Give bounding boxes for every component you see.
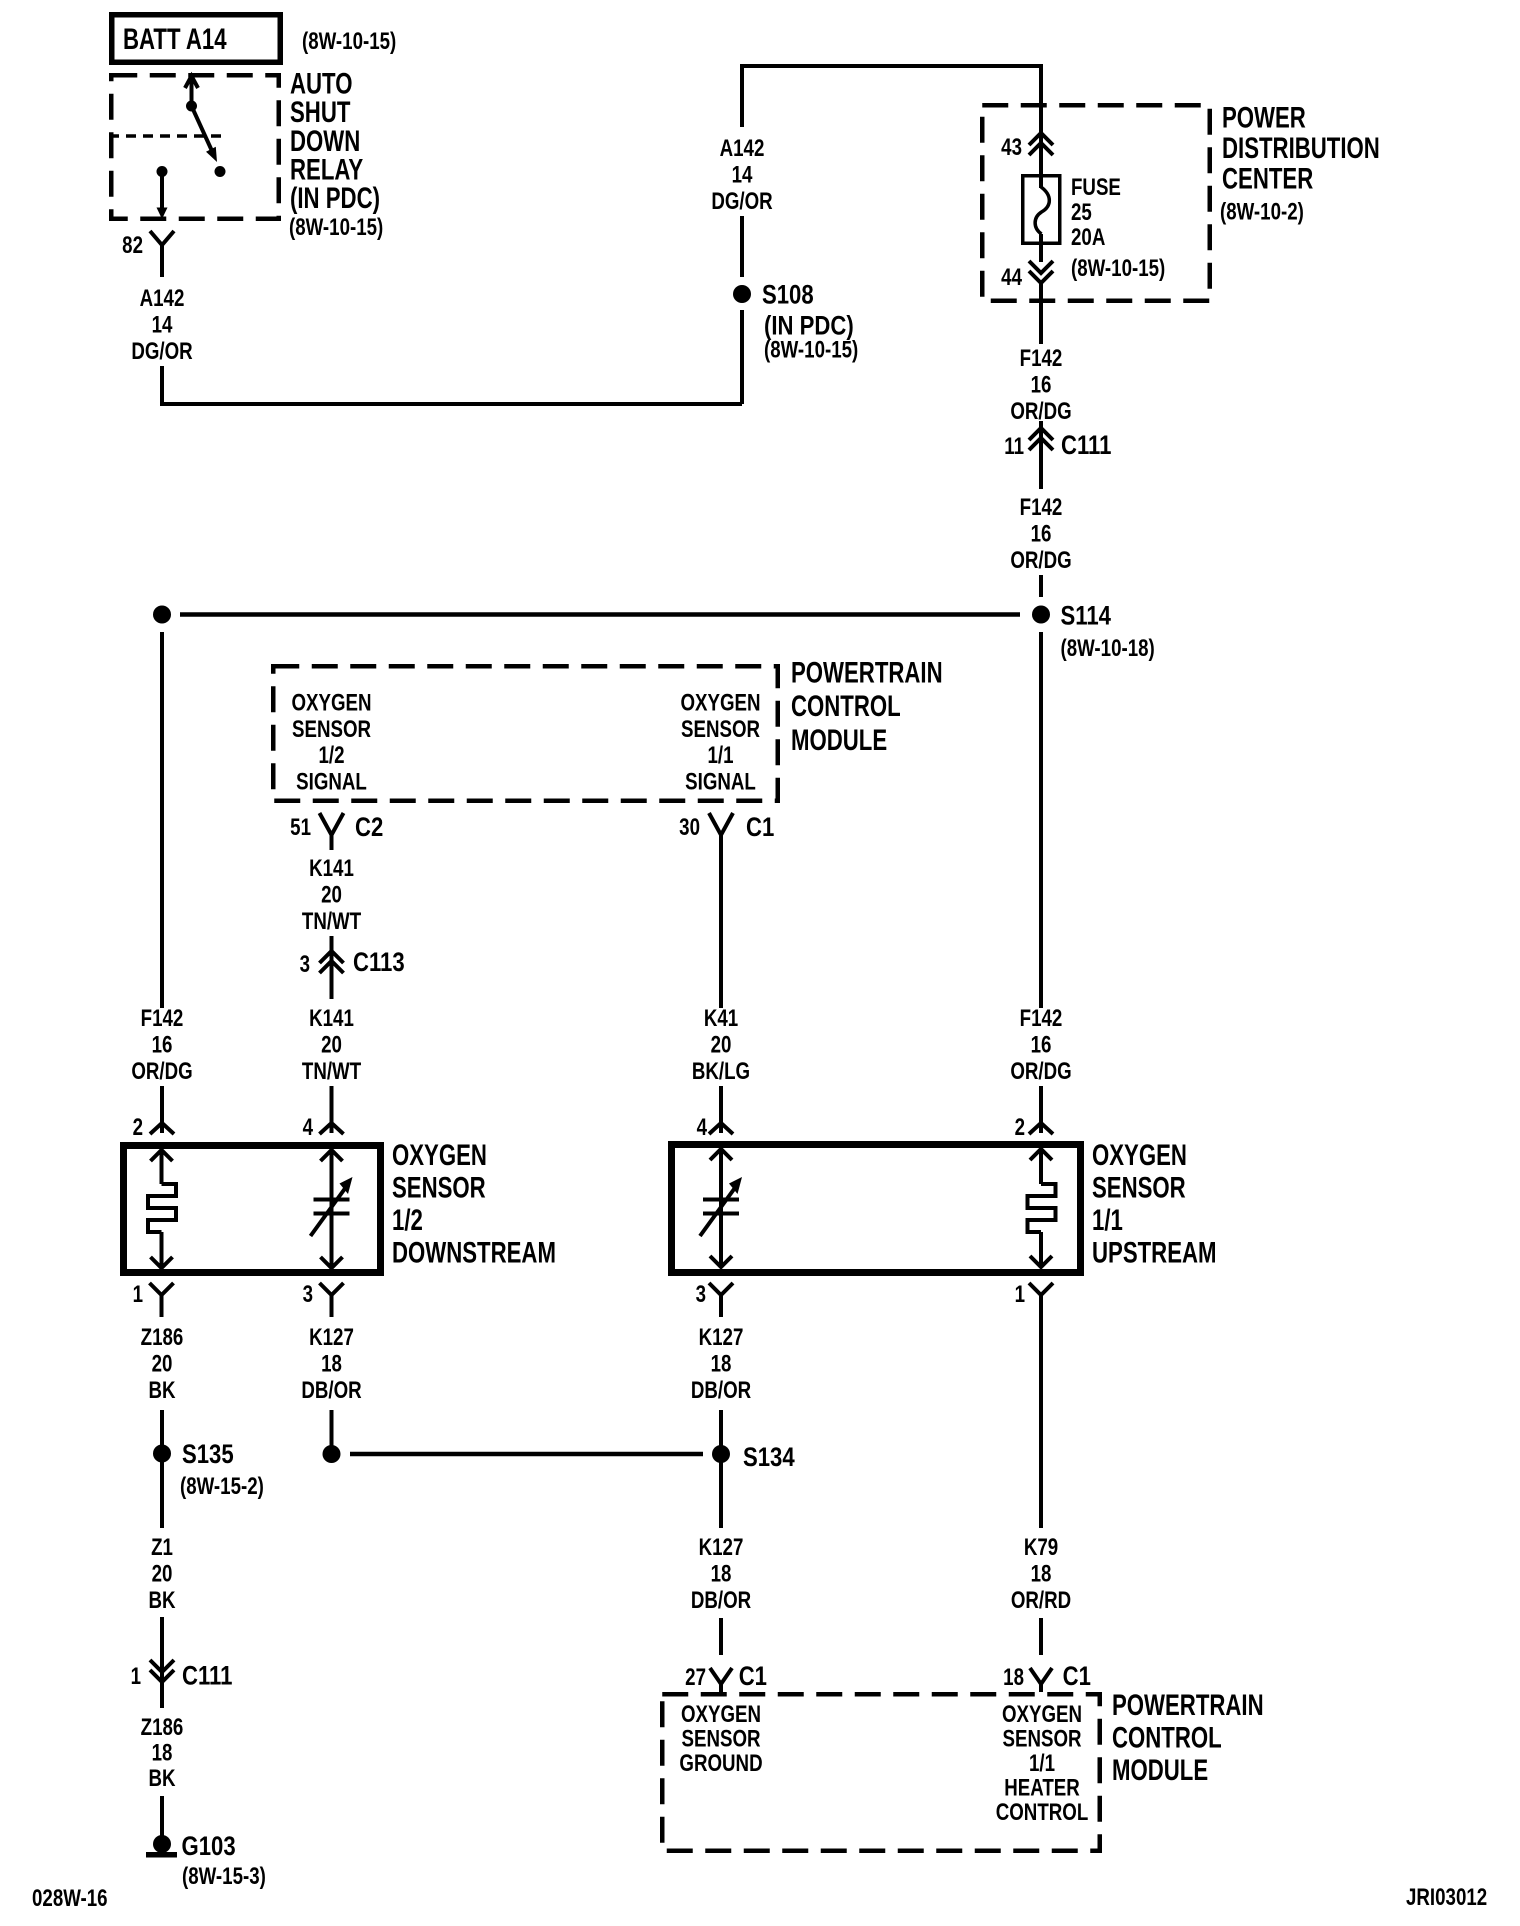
- svg-text:(8W-10-15): (8W-10-15): [302, 28, 396, 55]
- svg-text:20: 20: [152, 1350, 173, 1377]
- svg-text:K127: K127: [699, 1534, 744, 1561]
- svg-text:HEATER: HEATER: [1004, 1774, 1080, 1801]
- svg-text:1/2: 1/2: [318, 742, 344, 769]
- svg-text:16: 16: [152, 1031, 173, 1058]
- svg-text:CENTER: CENTER: [1222, 161, 1313, 195]
- svg-text:S114: S114: [1061, 602, 1112, 632]
- svg-text:25: 25: [1071, 199, 1092, 226]
- wire to pin 18: [1039, 1618, 1043, 1655]
- svg-text:G103: G103: [182, 1832, 236, 1862]
- svg-text:DB/OR: DB/OR: [691, 1587, 752, 1614]
- svg-text:F142: F142: [1020, 494, 1063, 521]
- connector C1 fork (top): [709, 813, 733, 835]
- svg-text:18: 18: [1031, 1560, 1052, 1587]
- wire below S135: [160, 1462, 164, 1528]
- wire to ground: [160, 1796, 164, 1836]
- svg-text:SENSOR: SENSOR: [1002, 1725, 1081, 1752]
- connector C2 fork: [320, 813, 344, 835]
- svg-text:20: 20: [711, 1031, 732, 1058]
- svg-text:CONTROL: CONTROL: [996, 1799, 1089, 1826]
- svg-text:3: 3: [303, 1281, 313, 1308]
- pin 43 connector chevrons: [1029, 133, 1053, 145]
- wire to C113: [330, 936, 334, 973]
- svg-text:S135: S135: [182, 1440, 234, 1470]
- svg-text:028W-16: 028W-16: [32, 1885, 108, 1912]
- wire below C113: [330, 971, 334, 999]
- svg-text:OXYGEN: OXYGEN: [392, 1138, 487, 1172]
- svg-text:(IN PDC): (IN PDC): [290, 181, 380, 215]
- svg-text:DB/OR: DB/OR: [691, 1377, 752, 1404]
- downstream sensor pin 4 internal arrow: [321, 1150, 343, 1161]
- svg-text:11: 11: [1004, 433, 1024, 460]
- svg-text:3: 3: [696, 1281, 706, 1308]
- svg-text:GROUND: GROUND: [679, 1750, 762, 1777]
- pin 27 connector fork: [710, 1668, 732, 1684]
- wire below S134: [719, 1462, 723, 1528]
- svg-text:C2: C2: [355, 813, 383, 843]
- svg-text:1: 1: [1015, 1281, 1025, 1308]
- downstream sensor pin 3 internal arrow: [321, 1257, 343, 1268]
- wire into fuse: [1039, 133, 1043, 188]
- svg-text:K79: K79: [1024, 1534, 1058, 1561]
- svg-text:(8W-10-2): (8W-10-2): [1220, 198, 1304, 225]
- svg-text:18: 18: [321, 1350, 342, 1377]
- downstream heater element lead: [160, 1150, 164, 1184]
- upstream heater element lead: [1039, 1149, 1043, 1184]
- svg-text:30: 30: [679, 814, 700, 841]
- upstream sense variable element: [703, 1198, 739, 1202]
- upstream sensor pin 3 internal arrow: [710, 1256, 732, 1267]
- svg-text:MODULE: MODULE: [1112, 1753, 1208, 1787]
- connector C111 chevrons (bottom): [150, 1660, 174, 1672]
- pin 1 fork downstream: [150, 1283, 174, 1295]
- upstream sensor pin 2 internal arrow: [1030, 1149, 1052, 1160]
- svg-text:3: 3: [300, 951, 310, 978]
- svg-text:C1: C1: [746, 813, 775, 843]
- svg-text:Z186: Z186: [141, 1324, 184, 1351]
- svg-text:POWERTRAIN: POWERTRAIN: [791, 655, 943, 689]
- svg-text:UPSTREAM: UPSTREAM: [1092, 1235, 1217, 1269]
- svg-text:BK/LG: BK/LG: [692, 1058, 750, 1085]
- svg-text:OXYGEN: OXYGEN: [1002, 1701, 1082, 1728]
- svg-text:51: 51: [290, 814, 311, 841]
- svg-text:18: 18: [152, 1739, 173, 1766]
- wire top bus from S108 column to PDC: [742, 66, 1041, 133]
- svg-text:18: 18: [1003, 1664, 1024, 1691]
- svg-text:C111: C111: [1061, 431, 1112, 461]
- wire into pin 4 upstream sensor: [719, 1086, 723, 1133]
- svg-text:POWER: POWER: [1222, 100, 1306, 134]
- junction dot on S134 bus (left): [323, 1445, 341, 1463]
- svg-text:Z186: Z186: [141, 1714, 184, 1741]
- wire pin3 upstream to S134: [719, 1410, 723, 1446]
- svg-text:82: 82: [122, 232, 143, 259]
- upstream sensor pin 1 internal arrow: [1030, 1256, 1052, 1267]
- upstream sense element wire: [719, 1149, 723, 1267]
- wire out of PDC: [1039, 283, 1043, 344]
- svg-text:POWERTRAIN: POWERTRAIN: [1112, 1688, 1264, 1722]
- oxygen sensor 1/1 upstream box: [672, 1145, 1081, 1273]
- upstream sensor pin 4 internal arrow: [710, 1149, 732, 1160]
- svg-text:TN/WT: TN/WT: [302, 908, 361, 935]
- power distribution center dashed box: [982, 105, 1210, 301]
- wire below C111: [1039, 448, 1043, 489]
- svg-text:16: 16: [1031, 520, 1052, 547]
- pin 2 fork upstream sensor: [1029, 1123, 1053, 1134]
- svg-text:1/1: 1/1: [1092, 1203, 1123, 1237]
- svg-text:K41: K41: [704, 1005, 738, 1032]
- upstream heater lead bottom: [1039, 1232, 1043, 1267]
- connector C111 chevrons (top): [1029, 428, 1053, 440]
- svg-text:DG/OR: DG/OR: [131, 338, 193, 365]
- downstream heater lead bottom: [160, 1232, 164, 1268]
- svg-text:JRI03012: JRI03012: [1406, 1884, 1487, 1911]
- relay contact 87A dot: [157, 166, 168, 177]
- svg-text:OXYGEN: OXYGEN: [1092, 1138, 1187, 1172]
- wire S114 down to upstream sensor: [1039, 632, 1043, 1008]
- pin 18 connector fork: [1030, 1668, 1052, 1684]
- relay internal dashed divider: [109, 134, 223, 138]
- svg-text:C111: C111: [182, 1662, 233, 1692]
- svg-text:DISTRIBUTION: DISTRIBUTION: [1222, 131, 1380, 165]
- relay K1 auto shut down relay dashed box: [111, 75, 279, 219]
- wire to pin 27: [719, 1618, 723, 1655]
- oxygen sensor 1/2 downstream box: [124, 1146, 381, 1273]
- svg-text:2: 2: [1015, 1114, 1025, 1141]
- svg-text:C1: C1: [739, 1662, 768, 1692]
- splice S134 dot: [712, 1445, 730, 1463]
- svg-text:(8W-15-2): (8W-15-2): [180, 1473, 264, 1500]
- svg-text:43: 43: [1001, 134, 1022, 161]
- svg-text:F142: F142: [1020, 345, 1063, 372]
- splice S108 dot: [733, 285, 751, 303]
- svg-text:SIGNAL: SIGNAL: [685, 768, 756, 795]
- svg-text:SENSOR: SENSOR: [681, 1725, 760, 1752]
- svg-text:OR/DG: OR/DG: [1010, 398, 1071, 425]
- svg-text:SENSOR: SENSOR: [1092, 1170, 1186, 1204]
- pin 4 fork upstream sensor: [709, 1123, 733, 1134]
- fuse F25 box: [1023, 176, 1060, 244]
- svg-text:SENSOR: SENSOR: [392, 1170, 486, 1204]
- svg-text:OR/DG: OR/DG: [1010, 547, 1071, 574]
- svg-text:S108: S108: [762, 281, 814, 311]
- powertrain control module dashed box (top): [273, 666, 778, 801]
- svg-text:SIGNAL: SIGNAL: [296, 768, 367, 795]
- svg-text:BATT A14: BATT A14: [123, 22, 227, 56]
- junction dot left end of S114 bus: [153, 606, 171, 624]
- svg-text:(8W-10-15): (8W-10-15): [289, 214, 383, 241]
- downstream sense variable element: [314, 1198, 350, 1202]
- wire K79 from pin 1 upstream: [1039, 1317, 1043, 1528]
- svg-text:F142: F142: [141, 1005, 184, 1032]
- pin 44 connector chevrons: [1029, 261, 1053, 273]
- svg-text:20A: 20A: [1071, 224, 1105, 251]
- svg-text:Z1: Z1: [151, 1534, 173, 1561]
- svg-text:(8W-10-15): (8W-10-15): [764, 336, 858, 363]
- svg-text:SENSOR: SENSOR: [292, 716, 371, 743]
- wire into pin 4 downstream sensor: [330, 1086, 334, 1133]
- svg-text:CONTROL: CONTROL: [1112, 1720, 1222, 1754]
- splice S114 dot: [1032, 606, 1050, 624]
- powertrain control module dashed box (bottom): [662, 1694, 1100, 1851]
- svg-text:OXYGEN: OXYGEN: [291, 689, 371, 716]
- svg-text:1/1: 1/1: [707, 742, 733, 769]
- pin 1 fork upstream: [1029, 1283, 1053, 1295]
- wire to S135: [160, 1410, 164, 1445]
- downstream sensor pin 2 internal arrow: [151, 1150, 173, 1161]
- wire below S108 to corner: [740, 310, 744, 404]
- svg-text:BK: BK: [148, 1587, 175, 1614]
- svg-text:14: 14: [152, 311, 173, 338]
- svg-text:(8W-10-18): (8W-10-18): [1061, 635, 1155, 662]
- svg-text:4: 4: [303, 1114, 313, 1141]
- wire left column down to downstream sensor: [160, 632, 164, 1008]
- svg-text:OR/DG: OR/DG: [1010, 1058, 1071, 1085]
- svg-text:2: 2: [133, 1114, 143, 1141]
- pin 82 connector fork: [150, 231, 174, 245]
- svg-text:C1: C1: [1063, 1662, 1092, 1692]
- wire to C111: [1039, 421, 1043, 450]
- upstream heater element: [1028, 1184, 1056, 1232]
- svg-text:18: 18: [711, 1560, 732, 1587]
- svg-text:BK: BK: [148, 1377, 175, 1404]
- splice bus S134 horizontal wire: [350, 1452, 703, 1457]
- svg-text:A142: A142: [140, 285, 185, 312]
- svg-text:16: 16: [1031, 1031, 1052, 1058]
- svg-text:27: 27: [685, 1664, 706, 1691]
- fuse element curve: [1035, 187, 1049, 234]
- svg-text:1/2: 1/2: [392, 1203, 423, 1237]
- svg-text:OXYGEN: OXYGEN: [680, 689, 760, 716]
- svg-text:DG/OR: DG/OR: [711, 188, 773, 215]
- svg-text:F142: F142: [1020, 1005, 1063, 1032]
- pin 3 fork downstream: [320, 1283, 344, 1295]
- svg-text:44: 44: [1001, 264, 1022, 291]
- downstream heater element: [148, 1184, 176, 1232]
- splice S135 dot: [153, 1445, 171, 1463]
- svg-text:1: 1: [131, 1663, 141, 1690]
- svg-text:(8W-10-15): (8W-10-15): [1071, 255, 1165, 282]
- svg-text:1: 1: [133, 1281, 143, 1308]
- svg-text:4: 4: [697, 1114, 707, 1141]
- connector C113 chevrons: [320, 951, 344, 963]
- svg-text:DOWNSTREAM: DOWNSTREAM: [392, 1235, 556, 1269]
- svg-text:FUSE: FUSE: [1071, 174, 1121, 201]
- svg-text:OXYGEN: OXYGEN: [681, 1701, 761, 1728]
- wire K41 from C1 to sensor: [719, 850, 723, 1008]
- svg-text:20: 20: [321, 881, 342, 908]
- splice bus S114 horizontal wire: [180, 612, 1020, 617]
- svg-text:1/1: 1/1: [1029, 1750, 1055, 1777]
- wire into pin 2 downstream sensor: [160, 1086, 164, 1133]
- wire from fuse to pin 44: [1039, 234, 1043, 262]
- relay pin 30 arrow to battery: [190, 77, 194, 106]
- wire pin3 to S134 bus: [330, 1410, 334, 1446]
- relay contact 87 dot: [215, 166, 226, 177]
- svg-text:K141: K141: [309, 855, 354, 882]
- relay output line to pin 82: [160, 172, 164, 211]
- battery feed box BATT A14: [112, 15, 281, 63]
- svg-text:MODULE: MODULE: [791, 723, 887, 757]
- svg-text:DB/OR: DB/OR: [301, 1377, 362, 1404]
- svg-text:16: 16: [1031, 371, 1052, 398]
- relay movable arm: [192, 106, 213, 151]
- svg-text:C113: C113: [353, 948, 405, 978]
- wire A142 middle segment: [740, 216, 744, 277]
- svg-text:K127: K127: [309, 1324, 354, 1351]
- svg-text:S134: S134: [743, 1443, 795, 1473]
- downstream sensor pin 1 internal arrow: [151, 1257, 173, 1268]
- pin 2 fork downstream sensor: [150, 1123, 174, 1134]
- svg-text:BK: BK: [148, 1765, 175, 1792]
- wire below C111 bottom: [160, 1682, 164, 1708]
- svg-text:A142: A142: [720, 135, 765, 162]
- svg-text:(8W-15-3): (8W-15-3): [182, 1863, 266, 1890]
- downstream sense element wire: [330, 1150, 334, 1268]
- wire to C111 bottom: [160, 1617, 164, 1682]
- svg-text:SENSOR: SENSOR: [681, 716, 760, 743]
- pin 3 fork upstream: [709, 1283, 733, 1295]
- svg-text:CONTROL: CONTROL: [791, 689, 901, 723]
- pin 4 fork downstream sensor: [320, 1123, 344, 1134]
- wire A142 from relay to S108 column: [162, 366, 742, 404]
- svg-text:20: 20: [152, 1560, 173, 1587]
- ground G103 symbol: [153, 1835, 171, 1853]
- svg-text:14: 14: [732, 161, 753, 188]
- svg-text:18: 18: [711, 1350, 732, 1377]
- wire to S114: [1039, 575, 1043, 597]
- svg-text:TN/WT: TN/WT: [302, 1058, 361, 1085]
- wire into pin 2 upstream sensor: [1039, 1086, 1043, 1133]
- svg-text:OR/RD: OR/RD: [1011, 1587, 1071, 1614]
- svg-text:K141: K141: [309, 1005, 354, 1032]
- svg-text:20: 20: [321, 1031, 342, 1058]
- relay common contact dot: [186, 101, 197, 112]
- svg-text:K127: K127: [699, 1324, 744, 1351]
- svg-text:OR/DG: OR/DG: [131, 1058, 192, 1085]
